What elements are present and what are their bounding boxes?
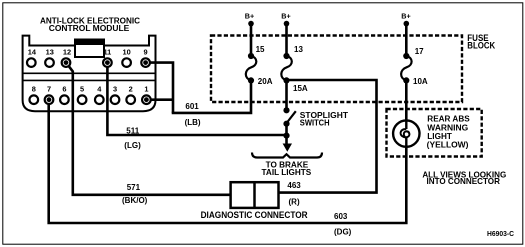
pin 11	[103, 47, 112, 67]
label: rear abs warning light (yellow)	[427, 115, 470, 150]
svg-text:15A: 15A	[293, 84, 308, 93]
connector ACM shell	[23, 36, 156, 112]
svg-text:511: 511	[126, 127, 139, 136]
pin 7	[45, 85, 54, 104]
svg-text:WARNING: WARNING	[427, 123, 468, 132]
svg-text:601: 601	[185, 102, 199, 111]
svg-text:BLOCK: BLOCK	[467, 41, 495, 51]
rear abs warning light box (dashed)	[387, 109, 482, 157]
pin 1	[142, 85, 151, 104]
svg-text:DIAGNOSTIC CONNECTOR: DIAGNOSTIC CONNECTOR	[201, 210, 308, 220]
wire 601 (LB): junction to fuse 15	[172, 80, 251, 113]
connector center band	[23, 73, 156, 80]
svg-text:7: 7	[47, 85, 51, 94]
arrow to brake tail lights	[283, 144, 292, 152]
svg-text:TAIL LIGHTS: TAIL LIGHTS	[262, 168, 312, 177]
svg-text:B+: B+	[401, 12, 410, 21]
svg-text:8: 8	[32, 85, 36, 94]
svg-text:B+: B+	[245, 12, 254, 21]
svg-text:H6903-C: H6903-C	[487, 231, 514, 238]
wire 603 (DG): pin 7 to rear abs lamp	[49, 100, 407, 223]
brace over to-brake-tail-lights	[252, 153, 322, 158]
svg-text:14: 14	[28, 47, 37, 56]
pin 9	[141, 47, 150, 67]
svg-text:571: 571	[127, 183, 141, 192]
svg-text:12: 12	[63, 47, 71, 56]
svg-text:3: 3	[113, 85, 117, 94]
fuse 17 (10A)	[401, 47, 428, 86]
svg-text:6: 6	[62, 85, 66, 94]
wire: B+ feed fuse 17	[405, 24, 408, 56]
fuse block (dashed)	[211, 36, 462, 103]
wire label 571	[122, 183, 148, 205]
svg-text:11: 11	[103, 47, 111, 56]
wire label 463	[287, 181, 301, 207]
pin 4	[95, 85, 104, 104]
connector keying tab	[74, 39, 105, 57]
svg-text:(R): (R)	[289, 198, 300, 207]
B+ terminal 1	[245, 12, 254, 27]
svg-text:B+: B+	[281, 12, 290, 21]
svg-text:20A: 20A	[258, 77, 273, 86]
svg-text:17: 17	[415, 47, 424, 56]
svg-text:13: 13	[294, 45, 303, 54]
svg-text:15: 15	[256, 45, 265, 54]
svg-text:(DG): (DG)	[334, 228, 352, 237]
pin 13	[45, 47, 54, 67]
svg-text:SWITCH: SWITCH	[300, 119, 330, 128]
svg-text:603: 603	[334, 212, 348, 221]
wire label 511	[124, 127, 141, 150]
svg-text:INTO CONNECTOR: INTO CONNECTOR	[426, 177, 500, 186]
wire: fuse 13 to stoplight switch	[285, 80, 288, 110]
svg-text:13: 13	[46, 47, 54, 56]
fuse 15 (20A)	[246, 45, 273, 86]
svg-text:(BK/O): (BK/O)	[122, 196, 148, 205]
svg-text:5: 5	[80, 85, 84, 94]
svg-text:(LB): (LB)	[185, 118, 201, 127]
wire label 603	[334, 212, 352, 237]
fuse 13 (15A)	[281, 45, 308, 93]
wire: pin 9 to junction	[146, 63, 173, 113]
wire: stoplight switch to arrow	[285, 124, 288, 145]
B+ terminal 2	[281, 12, 290, 27]
label: all views looking into connector	[422, 170, 506, 186]
svg-text:10: 10	[122, 47, 130, 56]
B+ terminal 3	[401, 12, 410, 27]
pin 12	[62, 47, 71, 67]
lamp rear abs warning light	[393, 120, 419, 146]
wire: fuse 17 to lamp	[405, 80, 408, 121]
svg-text:(YELLOW): (YELLOW)	[427, 140, 469, 149]
pin 14	[27, 47, 37, 67]
svg-text:(LG): (LG)	[124, 141, 141, 150]
pin 5	[78, 85, 87, 104]
wire 571 (BK/O): pin 12 to diagnostic connector	[66, 63, 231, 195]
label: anti-lock electronic control module	[40, 16, 141, 33]
wire: B+ feed fuse 13	[285, 24, 288, 56]
svg-text:10A: 10A	[413, 77, 428, 86]
pin 2	[126, 85, 135, 104]
wire label 601	[185, 102, 201, 127]
pin 6	[60, 85, 69, 104]
pin 8	[30, 85, 39, 104]
diagnostic connector	[201, 182, 308, 220]
wire: pin 1 to junction	[146, 98, 173, 101]
wire: B+ feed fuse 15	[250, 24, 253, 56]
label: to brake tail lights	[262, 160, 312, 177]
svg-text:1: 1	[144, 85, 148, 94]
svg-text:463: 463	[287, 181, 301, 190]
svg-text:2: 2	[129, 85, 133, 94]
wire 511 (LG): pin 11 to stoplight switch node	[107, 63, 286, 135]
pin 10	[122, 47, 131, 67]
node: 511 junction	[283, 133, 289, 139]
wire 463 (R): fuse 13 branch to diagnostic connector	[279, 80, 377, 193]
svg-text:9: 9	[144, 47, 148, 56]
stoplight switch	[283, 107, 348, 127]
pin 3	[111, 85, 120, 104]
svg-text:CONTROL MODULE: CONTROL MODULE	[49, 23, 130, 33]
